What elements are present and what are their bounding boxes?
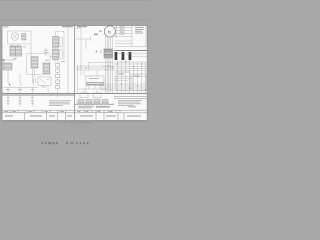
switch S1: [8, 70, 10, 93]
connector CN1: [10, 46, 22, 56]
bus wire: [4, 87, 39, 89]
window top edge: [0, 0, 150, 1]
wire loop: [56, 32, 65, 61]
header text left: [4, 26, 9, 27]
wire: [117, 54, 147, 56]
coil L1: [7, 95, 10, 104]
switch S3: [33, 69, 35, 94]
wire: [115, 41, 133, 46]
symbol K3: [95, 50, 102, 53]
motor M3: [93, 93, 101, 98]
grid horizontals: [101, 62, 148, 90]
grid verticals: [118, 60, 146, 93]
B2 label: [118, 73, 124, 76]
connector row CN9: [86, 100, 92, 104]
label left misc: [13, 47, 65, 88]
title block left page: [2, 110, 75, 120]
capacitor C1: [44, 48, 49, 56]
battery lead: [76, 28, 91, 63]
alternator bus wires: [106, 37, 113, 49]
ground G1: [7, 104, 10, 106]
wire: [30, 44, 32, 63]
junction box JB1: [27, 54, 50, 75]
viewer toolbar icons: [42, 142, 89, 144]
right page sheet: [75, 26, 148, 121]
relay box B2: [116, 72, 130, 91]
relay K2: [38, 77, 51, 86]
fuse F5: [120, 30, 124, 32]
motor assembly box M1: [8, 31, 32, 44]
U2 label text: [135, 27, 144, 33]
control unit U2: [132, 26, 146, 47]
ground bus right 2: [114, 96, 147, 98]
wire: [54, 60, 56, 64]
ground bus right 1: [75, 92, 147, 94]
header text right: [62, 26, 73, 27]
fuse F6: [120, 33, 124, 35]
title block right page: [75, 110, 147, 120]
ground bus line 2: [3, 94, 75, 96]
connector CN7: [104, 49, 113, 58]
resistor block R1: [22, 34, 27, 41]
label n2: [18, 88, 22, 91]
note text block left page: [49, 100, 71, 106]
wire: [12, 44, 18, 46]
wire ladder: [116, 28, 132, 37]
relay K2 contact: [40, 79, 49, 84]
connector row CN10: [94, 100, 100, 104]
ECU U3: [86, 76, 104, 85]
svg-text:b: b: [108, 29, 111, 34]
wire: [4, 56, 16, 63]
note text block right page: [118, 100, 142, 106]
motor M2: [80, 93, 88, 98]
connector CN5: [31, 57, 38, 69]
feeder line: [114, 50, 147, 52]
coil L2: [19, 95, 22, 104]
toolbar divider line: [0, 19, 150, 22]
legend text right page: [78, 106, 136, 109]
page number text under pages: [63, 122, 92, 124]
wire chain: [57, 60, 59, 94]
label n1: [6, 88, 10, 91]
grid dots: [117, 61, 146, 90]
ground G3: [31, 104, 34, 106]
ground G2: [19, 104, 22, 106]
fuse chain column: [56, 64, 60, 89]
label n3: [31, 88, 35, 91]
wire: [86, 85, 100, 93]
wire: [50, 56, 53, 58]
wire stub: [57, 95, 59, 98]
ground bus line 1: [3, 92, 75, 94]
connector CN6: [43, 63, 50, 74]
connector CN4: [3, 63, 12, 70]
frame line: [75, 103, 114, 105]
wire: [81, 63, 97, 76]
fusible link F1: [115, 52, 118, 60]
motor M1 circle: [11, 33, 19, 41]
fuse F4: [120, 27, 124, 29]
edge label: [3, 59, 5, 61]
page bottom shadow: [2, 120, 147, 123]
B3 label: [134, 75, 140, 78]
title text left: [4, 111, 72, 117]
fusible link F3: [129, 52, 132, 60]
motor M1 cross: [12, 34, 17, 39]
connector CN3: [53, 49, 59, 60]
connector CN2: [53, 37, 59, 48]
wire: [35, 68, 49, 93]
fusible link F2: [122, 52, 125, 60]
bus verticals: [106, 58, 113, 93]
junction dots: [80, 65, 112, 90]
U3 label: [89, 77, 99, 80]
coil L3: [31, 95, 34, 104]
cross wires: [76, 66, 114, 70]
switch S4: [34, 78, 36, 83]
junction dot: [9, 84, 10, 85]
wire net: [78, 66, 109, 93]
viewer background: [0, 0, 150, 150]
pin dots: [115, 27, 116, 37]
connector row CN11: [102, 100, 108, 104]
label a: [99, 31, 102, 32]
connector CN2 side: [60, 38, 62, 47]
alternator A1: [104, 26, 115, 37]
header text left: [77, 26, 87, 27]
label B: [94, 34, 98, 36]
left page sheet: [2, 26, 75, 121]
connector row CN8: [78, 100, 84, 104]
wire vertical right trunk: [67, 28, 69, 94]
U3 pin row: [87, 82, 104, 84]
connector CN3 side: [60, 50, 62, 59]
switch S2: [20, 74, 22, 94]
title text right: [77, 111, 141, 117]
relay box B3: [132, 74, 146, 91]
wire: [89, 63, 114, 71]
